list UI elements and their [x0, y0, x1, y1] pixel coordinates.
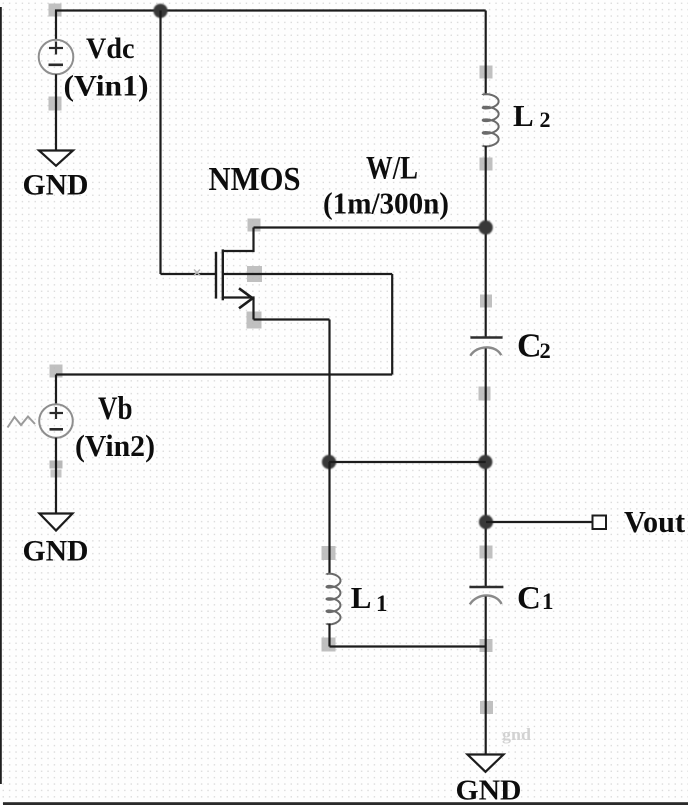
voltage source Vdc: [39, 40, 74, 75]
svg-text:NMOS: NMOS: [209, 161, 301, 198]
terminal marker below Vb: [50, 461, 63, 469]
ground GND (under Vb): [40, 514, 73, 531]
wire Vb stem upper: [55, 375, 57, 406]
transistor M1 NMOS: [216, 228, 254, 320]
wire Vb horizontal: [56, 373, 392, 375]
inductor L2: [483, 94, 499, 146]
terminal marker below Vdc: [49, 97, 62, 111]
node junction left (L1 top): [322, 455, 336, 469]
port Vout: [593, 516, 607, 530]
stray cross mark: [194, 270, 200, 276]
node junction drain: [479, 220, 493, 234]
wire source down to node: [328, 320, 330, 463]
capacitor C1: [469, 587, 503, 604]
terminal marker NMOS drain: [248, 219, 261, 232]
ground GND (under Vdc): [39, 151, 73, 166]
wire bulk horizontal: [223, 273, 392, 275]
svg-text:gnd: gnd: [502, 725, 531, 744]
capacitor C2: [470, 338, 502, 356]
svg-text:2: 2: [540, 107, 551, 132]
svg-text:GND: GND: [456, 775, 522, 805]
terminal marker GND stem: [480, 701, 493, 714]
terminal marker C2 bottom: [479, 387, 491, 401]
svg-text:(1m/300n): (1m/300n): [323, 185, 449, 220]
node junction Vout: [479, 515, 493, 529]
terminal marker L1 bottom: [322, 638, 336, 652]
svg-text:L: L: [513, 98, 534, 133]
svg-text:Vdc: Vdc: [86, 32, 135, 65]
wire node row: [329, 461, 486, 463]
terminal marker bottom wire right: [480, 639, 493, 652]
wire top rail: [55, 9, 486, 11]
svg-text:W/L: W/L: [366, 150, 418, 186]
voltage source Vb: [39, 404, 73, 438]
svg-text:Vb: Vb: [98, 391, 133, 427]
wire L1 stem lower: [328, 624, 330, 647]
svg-text:(Vin2): (Vin2): [75, 429, 155, 463]
wire source horizontal: [254, 318, 330, 320]
wire drain to right rail: [254, 226, 486, 228]
ac squiggle at Vb: [8, 417, 36, 428]
wire right rail below C2: [485, 349, 487, 588]
wire Vout: [486, 521, 593, 523]
svg-text:C: C: [517, 328, 542, 365]
svg-text:Vout: Vout: [624, 504, 686, 539]
svg-text:1: 1: [376, 591, 388, 616]
wire bottom row: [330, 645, 486, 647]
svg-text:1: 1: [542, 589, 554, 614]
svg-text:L: L: [351, 580, 372, 615]
svg-text:(Vin1): (Vin1): [64, 69, 149, 102]
terminal marker L2 top: [480, 66, 493, 79]
svg-text:GND: GND: [23, 534, 89, 567]
wire gate rail vertical: [159, 11, 161, 275]
terminal marker NMOS bulk: [247, 266, 262, 282]
wire Vdc stem lower: [55, 74, 57, 150]
wire L1 stem upper: [328, 462, 330, 575]
ground GND (bottom): [468, 755, 504, 772]
terminal marker C1 top: [480, 546, 493, 559]
terminal marker L1 top: [322, 546, 336, 560]
inductor L1: [327, 574, 341, 625]
node junction top (gate rail): [153, 4, 167, 18]
svg-text:2: 2: [540, 338, 551, 363]
terminal marker NMOS source: [247, 312, 262, 329]
node junction right rail: [478, 455, 492, 469]
svg-text:C: C: [517, 580, 541, 616]
wire right rail between L2 and C2: [485, 146, 487, 338]
wire right rail top: [485, 11, 487, 96]
terminal marker C2 top: [480, 295, 492, 308]
terminal marker L2 bottom: [480, 158, 493, 171]
wire bulk vertical: [391, 274, 393, 375]
wire right rail below C1: [485, 597, 487, 755]
terminal marker Vb top: [50, 365, 63, 378]
svg-text:GND: GND: [23, 169, 89, 202]
wire gate horizontal: [161, 273, 217, 275]
wire Vb stem lower: [55, 438, 57, 514]
terminal marker top-left: [49, 4, 62, 17]
wire Vdc stem upper: [55, 11, 57, 41]
